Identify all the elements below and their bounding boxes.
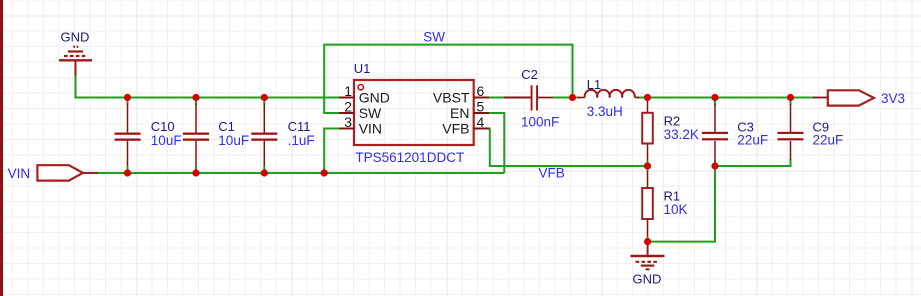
svg-text:3V3: 3V3 [881, 91, 905, 106]
svg-text:C10: C10 [151, 119, 175, 134]
capacitor C2 [504, 67, 559, 130]
wire VIN riser to pin 3 [324, 129, 339, 174]
svg-text:100nF: 100nF [521, 115, 559, 130]
capacitor C1 [183, 98, 249, 174]
ground GND (top-left, earth symbol) [59, 47, 92, 76]
inductor L1 [578, 77, 639, 119]
svg-text:10uF: 10uF [151, 133, 182, 148]
wire VBST pin 6 to C2 [488, 97, 505, 99]
svg-text:GND: GND [633, 271, 662, 286]
wire GND symbol drop to pin 1 rail [76, 76, 340, 98]
svg-text:4: 4 [477, 114, 485, 130]
svg-text:6: 6 [477, 83, 485, 99]
svg-text:22uF: 22uF [737, 133, 768, 148]
svg-text:.1uF: .1uF [288, 133, 315, 148]
junction C1 top [192, 94, 199, 101]
junction output at R2 top [644, 94, 651, 101]
connector VIN [8, 165, 98, 181]
capacitor C10 [115, 98, 182, 174]
svg-text:VIN: VIN [359, 121, 382, 137]
wire L1 to output node [637, 97, 648, 99]
wire C9 bottom to C3 bottom node [715, 159, 791, 166]
svg-text:U1: U1 [354, 61, 371, 76]
pin 6 VBST stub [474, 97, 489, 99]
svg-text:EN: EN [450, 105, 469, 121]
wire VIN bottom rail [98, 172, 504, 174]
junction R1 bottom ground node [644, 238, 651, 245]
svg-text:3.3uH: 3.3uH [587, 104, 623, 119]
svg-text:10uF: 10uF [218, 133, 249, 148]
svg-text:GND: GND [359, 90, 390, 106]
wire output rail to 3V3 [648, 97, 815, 99]
junction C1 bottom [192, 169, 199, 176]
svg-text:GND: GND [61, 30, 90, 45]
wire C2 to SW node [552, 97, 580, 99]
svg-text:VIN: VIN [8, 166, 31, 181]
svg-text:SW: SW [423, 30, 445, 45]
wire EN pin 5 drop to VIN rail [489, 113, 504, 173]
svg-text:VFB: VFB [442, 121, 469, 137]
junction C3 bottom node [711, 162, 718, 169]
resistor R2 [642, 98, 699, 172]
pin 1 GND stub [339, 97, 354, 99]
svg-text:C11: C11 [288, 119, 311, 134]
junction VFB divider node [644, 162, 651, 169]
svg-text:22uF: 22uF [813, 133, 844, 148]
svg-text:3: 3 [344, 114, 352, 130]
svg-text:SW: SW [359, 105, 382, 121]
wire SW net (pin 2 up and over to bootstrap node) [324, 45, 572, 113]
svg-text:TPS561201DDCT: TPS561201DDCT [355, 150, 464, 165]
svg-text:VFB: VFB [539, 165, 565, 180]
svg-text:VBST: VBST [433, 90, 470, 106]
junction C10 top [124, 94, 131, 101]
junction output at C9 top [787, 94, 794, 101]
capacitor C3 [702, 98, 768, 162]
svg-text:2: 2 [344, 99, 352, 115]
junction C10 bottom [124, 169, 131, 176]
pin 2 SW stub [339, 112, 354, 114]
wire C3 bottom down to ground node [648, 161, 715, 242]
pin 5 EN stub [474, 112, 489, 114]
wire VFB net (pin 4 to divider) [489, 129, 648, 167]
pin 4 VFB stub [474, 128, 489, 130]
svg-text:L1: L1 [587, 77, 601, 92]
capacitor C9 [778, 98, 844, 161]
junction SW node [569, 94, 576, 101]
resistor R1 [642, 171, 687, 242]
connector 3V3 [813, 90, 905, 106]
svg-text:C1: C1 [218, 119, 235, 134]
junction C11 top [261, 94, 268, 101]
svg-text:10K: 10K [664, 202, 688, 217]
svg-text:33.2K: 33.2K [664, 127, 699, 142]
svg-text:5: 5 [477, 99, 485, 115]
pin 3 VIN stub [339, 128, 354, 130]
svg-text:C2: C2 [521, 67, 538, 82]
capacitor C11 [251, 98, 314, 174]
junction C11 bottom [261, 169, 268, 176]
pin 1 marker dot [358, 85, 363, 90]
IC U1 TPS561201DDCT body [354, 61, 474, 165]
svg-text:1: 1 [344, 83, 352, 99]
ground GND (bottom, earth symbol) [631, 242, 665, 270]
junction VIN riser [321, 169, 328, 176]
junction output at C3 top [711, 94, 718, 101]
